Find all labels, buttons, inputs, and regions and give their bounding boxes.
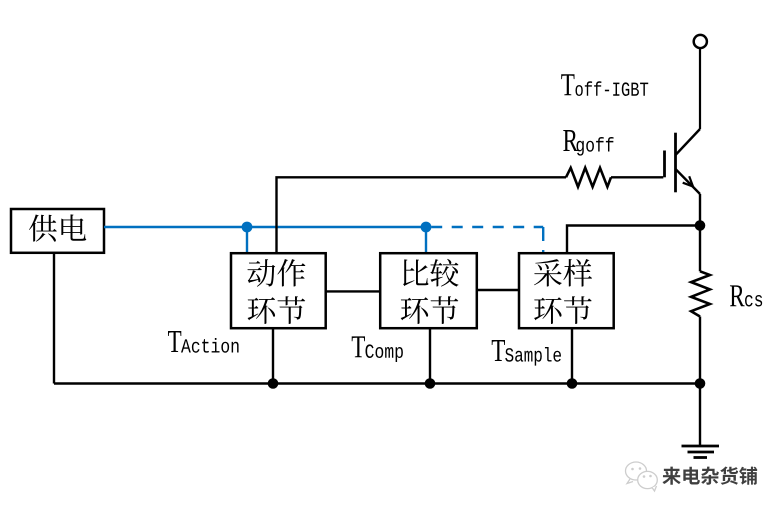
wire: 比较环节 down to bus <box>429 328 431 384</box>
wire: gate drive from 动作环节 up and right to Rgoff <box>277 177 567 253</box>
block 比较环节 (comparison stage) <box>380 253 477 328</box>
wire: blue supply bus from 供电 to node B <box>104 226 426 228</box>
wire: current sense from emitter node to 采样环节 <box>567 226 700 254</box>
wire: blue dashed supply to 采样环节 <box>426 227 543 254</box>
block 采样环节 (sampling stage) <box>519 253 614 328</box>
wire: Rgoff to IGBT gate <box>611 176 663 178</box>
wire: 采样环节 down to bus <box>571 328 573 384</box>
terminal: collector circle <box>694 35 707 48</box>
wire: 动作环节 down to bus <box>272 328 274 384</box>
wire: node C down to Rcs <box>699 226 701 272</box>
watermark logo (two chat bubbles) <box>626 462 658 491</box>
junction: bus node under 比较环节 <box>425 378 436 389</box>
junction: bus node under 动作环节 <box>268 378 279 389</box>
label Toff-IGBT <box>561 74 648 96</box>
resistor Rgoff (zigzag) <box>566 168 611 187</box>
label Rgoff <box>563 130 613 156</box>
label T_Action <box>168 331 239 353</box>
junction: blue node B (supply to 比较) <box>421 222 432 233</box>
label T_Comp <box>352 336 403 362</box>
junction: node C (emitter / Rcs / sense) <box>695 220 706 231</box>
wire: connector 动作环节 to 比较环节 <box>326 290 381 292</box>
wire: blue drop to 比较环节 <box>425 227 427 253</box>
transistor Q1 Toff-IGBT (IGBT symbol) <box>665 129 701 194</box>
junction: bus node under Rcs <box>695 378 706 389</box>
resistor Rcs (vertical zigzag) <box>691 271 710 316</box>
block 动作环节 (action stage) <box>231 253 326 328</box>
wire: emitter down to node C <box>699 194 701 226</box>
ground symbol <box>682 384 720 458</box>
wire: supply return (供电 down to ground bus) <box>53 253 55 384</box>
wire: Rcs down to ground bus <box>699 317 701 384</box>
wire: bottom ground bus <box>54 382 700 385</box>
block: power supply 供电 box <box>11 209 104 253</box>
junction: blue node A (supply to 动作) <box>242 222 253 233</box>
watermark text 来电杂货铺 <box>662 467 757 485</box>
junction: bus node under 采样环节 <box>567 378 578 389</box>
wire: blue drop to 动作环节 <box>246 227 248 253</box>
label Rcs <box>730 285 762 306</box>
label T_Sample <box>492 340 561 366</box>
wire: connector 比较环节 to 采样环节 <box>477 289 519 291</box>
wire: collector up to terminal <box>699 48 701 129</box>
